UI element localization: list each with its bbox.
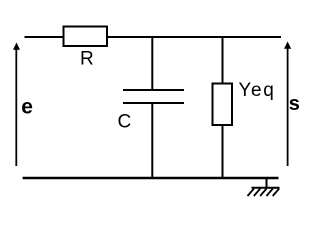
admittance box Yeq	[213, 84, 233, 126]
wire Yeq bottom stub	[222, 125, 224, 179]
label e	[21, 95, 33, 118]
svg-text:s: s	[289, 93, 300, 115]
wire top rail	[25, 36, 282, 38]
arrow e input	[13, 43, 20, 167]
svg-text:C: C	[118, 112, 132, 133]
label R	[80, 49, 94, 70]
wire Yeq top stub	[222, 37, 224, 83]
wire capacitor bottom stub	[151, 103, 153, 179]
label s	[289, 93, 300, 115]
resistor R	[64, 27, 108, 47]
wire capacitor top stub	[151, 37, 153, 90]
wire bottom rail	[23, 177, 279, 180]
arrow s output	[284, 42, 291, 167]
ground	[248, 178, 280, 196]
label C	[118, 112, 132, 133]
svg-text:R: R	[80, 49, 94, 70]
svg-text:e: e	[21, 95, 33, 118]
capacitor C plates	[123, 90, 184, 103]
label Yeq	[239, 80, 276, 101]
svg-text:Yeq: Yeq	[239, 80, 276, 101]
